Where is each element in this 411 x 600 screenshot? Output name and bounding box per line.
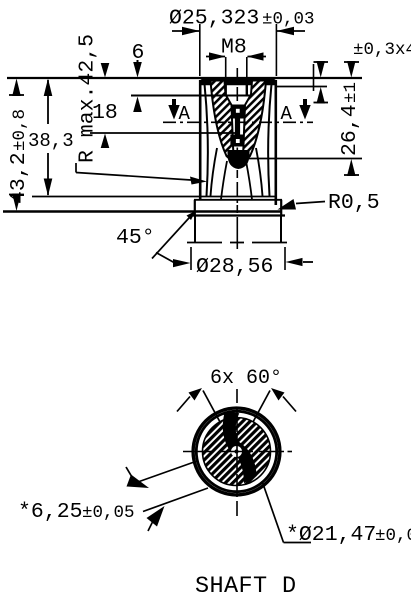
- hatched arm left: [211, 81, 235, 164]
- inner rim circle: [196, 411, 276, 491]
- center white circle: [231, 446, 242, 457]
- svg-text:*Ø21,47: *Ø21,47: [286, 523, 376, 547]
- chamfer ref line right y86.5: [276, 86, 327, 88]
- boss bottom blob: [228, 150, 250, 169]
- chamfer dim ±0,3x45°: [314, 40, 411, 104]
- inner wall curve left: [205, 84, 208, 196]
- svg-text:R0,5: R0,5: [328, 191, 380, 215]
- cavity mouth line y196.5: [32, 196, 277, 198]
- lower hidden bottom dashed: [187, 242, 287, 244]
- flange bottom line y215.5: [191, 214, 285, 216]
- inner wall curve right: [268, 84, 271, 196]
- dim M8: [206, 36, 266, 96]
- part bottom line y211.5 (43.2 extension): [3, 210, 282, 212]
- flange outline: [194, 200, 282, 216]
- dark S-wedge upper: [224, 413, 243, 458]
- body top band with chamfer edge: [199, 79, 277, 86]
- vertical centerline: [236, 389, 238, 516]
- svg-text:45°: 45°: [116, 226, 155, 250]
- thread insert rect 1: [231, 105, 244, 119]
- dark S-wedge lower: [231, 444, 256, 481]
- leader R0,5: [278, 191, 380, 215]
- body left edge: [199, 80, 202, 199]
- arrow to line2: [147, 506, 165, 531]
- center dot: [235, 450, 239, 454]
- hatched disc: [203, 418, 271, 486]
- svg-text:±0,8: ±0,8: [10, 109, 30, 151]
- skirt curve right inner: [246, 161, 252, 200]
- top face line with extensions: [7, 77, 362, 79]
- lower hidden body left edge: [194, 216, 196, 243]
- radius label R max.42,5 (rotated) with leader: [76, 34, 208, 185]
- dim Ø25,323±0,03: [169, 7, 315, 77]
- dim 38,3: [28, 79, 74, 197]
- thread insert rect 2: [230, 135, 243, 147]
- leader Ø21,47: [262, 481, 311, 543]
- center vertical below flange: [236, 217, 238, 249]
- vertical centerline of front view: [236, 68, 238, 213]
- lower hidden body right edge: [280, 216, 282, 243]
- radial line upper-right with arrow (6x60): [253, 388, 296, 422]
- svg-text:Ø25,323: Ø25,323: [169, 7, 259, 31]
- skirt curve left inner: [221, 161, 227, 200]
- svg-text:SHAFT D: SHAFT D: [195, 573, 297, 600]
- line 26.4-ref y158.5: [246, 158, 362, 160]
- dim 6 (top left): [132, 41, 145, 112]
- line 18-ref y133: [90, 132, 236, 134]
- svg-text:A: A: [179, 103, 191, 125]
- radial line upper-left with arrow (6x60): [177, 388, 220, 422]
- outer circle: [193, 408, 280, 495]
- svg-text:R max.42,5: R max.42,5: [76, 34, 100, 163]
- svg-text:38,3: 38,3: [28, 130, 74, 152]
- text *6,25±0,05: [18, 500, 135, 524]
- body right edge: [274, 80, 277, 205]
- svg-text:*6,25: *6,25: [18, 500, 83, 524]
- dim 18: [92, 63, 118, 148]
- ledge line y95: [131, 95, 251, 97]
- hatched arm right: [243, 81, 267, 164]
- text *Ø21,47±0,05: [286, 523, 411, 547]
- skirt curve left outer: [211, 148, 218, 196]
- thread insert bar: [235, 119, 240, 135]
- section line A-A dash-dot: [163, 121, 313, 123]
- svg-text:±0,05: ±0,05: [82, 503, 135, 523]
- svg-text:26,4: 26,4: [338, 104, 362, 156]
- svg-text:±0,3x45°: ±0,3x45°: [353, 40, 411, 60]
- skirt curve right outer: [256, 148, 263, 196]
- section arrow A right: [281, 99, 311, 125]
- svg-text:43,2: 43,2: [7, 152, 31, 204]
- svg-text:±1: ±1: [341, 82, 361, 103]
- thread hole wall right: [246, 82, 248, 95]
- horizontal centerline: [183, 451, 292, 453]
- slot width line 2 (6,25): [143, 488, 208, 512]
- dim 43,2±0,8 (rotated): [7, 79, 31, 212]
- arrow to line1: [126, 467, 149, 488]
- svg-text:A: A: [281, 103, 293, 125]
- thread hole wall left: [224, 82, 226, 95]
- white dot in rect1: [236, 109, 240, 113]
- white dot in rect2: [236, 139, 240, 143]
- svg-text:6x 60°: 6x 60°: [210, 367, 282, 390]
- svg-text:±0,05: ±0,05: [375, 526, 411, 546]
- dim Ø28,56: [156, 247, 313, 279]
- chamfer ext tick x313.5: [313, 64, 315, 91]
- slot width line 1 (6,25): [128, 461, 197, 486]
- svg-text:M8: M8: [221, 36, 247, 60]
- svg-text:±0,03: ±0,03: [262, 10, 315, 30]
- svg-text:Ø28,56: Ø28,56: [196, 255, 273, 279]
- section arrow A left: [168, 99, 190, 125]
- dim 26,4±1 (rotated, right side): [338, 61, 362, 176]
- leader 45°: [116, 211, 196, 259]
